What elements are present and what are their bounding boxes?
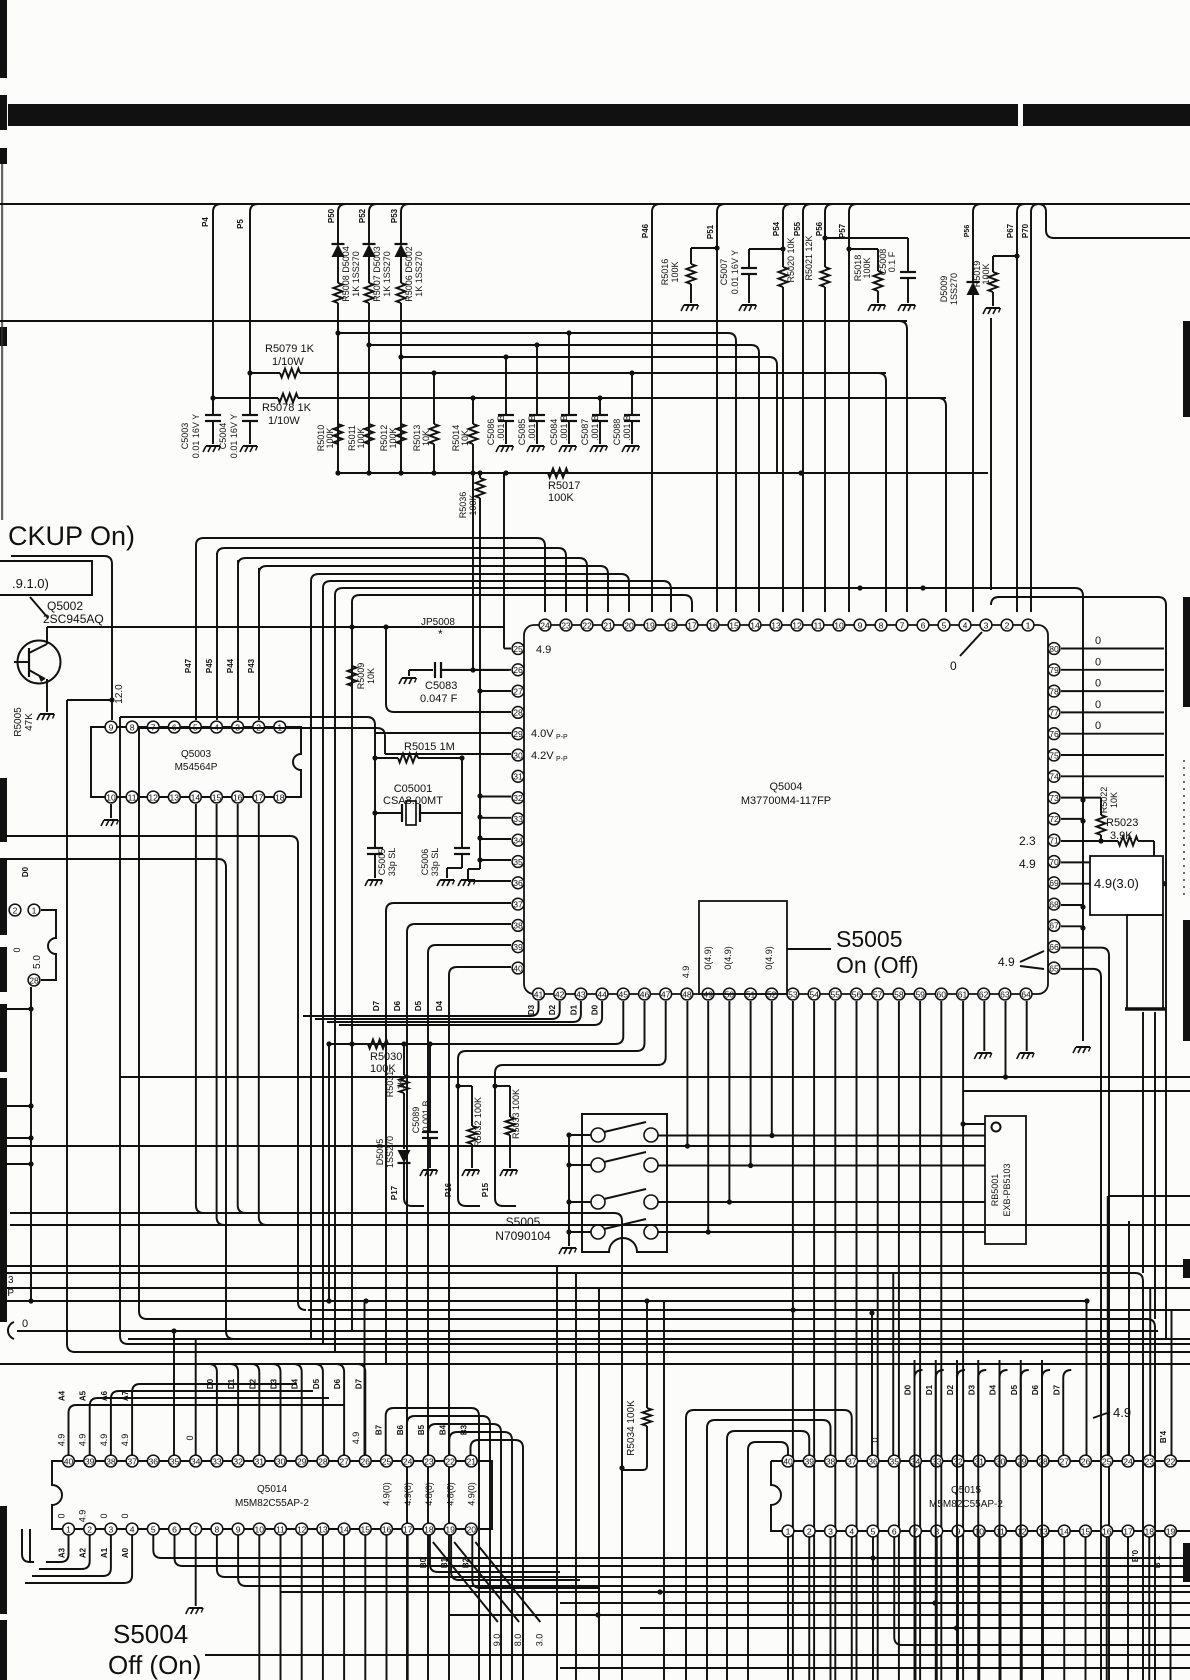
wire column P52	[369, 204, 377, 243]
junction dot R5031 top	[401, 1041, 406, 1046]
wire v67 down to bottom bus	[67, 700, 75, 1352]
svg-text:R5022: R5022	[1099, 787, 1109, 814]
bottom left bus curves	[22, 1529, 34, 1562]
svg-text:31: 31	[513, 772, 523, 782]
svg-text:2: 2	[13, 905, 18, 915]
svg-text:37: 37	[127, 1456, 137, 1466]
capacitor C5003	[213, 204, 221, 415]
svg-text:R5006 D5002: R5006 D5002	[404, 246, 414, 302]
svg-text:Q5015: Q5015	[951, 1485, 981, 1496]
junction dot R5006 bus	[398, 470, 403, 475]
IC Q5004 top pins	[539, 619, 551, 631]
capacitor C5083 0.047F	[409, 669, 433, 671]
svg-text:47: 47	[661, 989, 671, 999]
capacitor C5085 .001 B	[536, 345, 538, 415]
svg-text:Q5003: Q5003	[181, 749, 211, 760]
box right lower	[1127, 915, 1163, 1009]
label S5005 On (Off)	[787, 948, 831, 950]
resistor R5032 100K	[458, 1085, 472, 1087]
svg-text:27: 27	[513, 686, 523, 696]
IC Q5004 M37700M4-117FP body	[524, 625, 1048, 994]
svg-text:0: 0	[12, 947, 22, 952]
wires MCU pins 49-52 drops	[707, 1001, 709, 1232]
svg-text:M37700M4-117FP: M37700M4-117FP	[741, 795, 831, 807]
svg-text:33p SL: 33p SL	[430, 848, 440, 877]
transistor Q5002	[18, 641, 61, 684]
wire pin33 stub	[480, 817, 511, 819]
wire column P53	[401, 204, 409, 243]
svg-text:R5016: R5016	[660, 259, 670, 286]
wires D0-D7 Q5015 pins 34-27	[914, 1360, 916, 1680]
IC Q5003 M54564P body	[91, 727, 301, 797]
capacitor C5088 .001 B	[631, 373, 633, 415]
svg-text:12: 12	[1017, 1526, 1027, 1536]
ground C5008	[901, 304, 915, 306]
wire pin74 stub	[1061, 775, 1164, 777]
svg-text:15: 15	[1081, 1526, 1091, 1536]
svg-text:33: 33	[212, 1456, 222, 1466]
svg-text:23: 23	[1144, 1456, 1154, 1466]
svg-text:D0: D0	[21, 866, 30, 877]
IC Q5015 bottom pins	[782, 1525, 794, 1537]
svg-text:5: 5	[151, 1524, 156, 1534]
svg-text:D6: D6	[1031, 1384, 1040, 1395]
svg-text:12: 12	[792, 620, 802, 630]
ground R5036	[461, 879, 475, 881]
svg-text:8: 8	[215, 1524, 220, 1534]
svg-text:45: 45	[619, 989, 629, 999]
svg-text:100K: 100K	[862, 257, 872, 278]
wires S5005 to MCU pins	[658, 1135, 772, 1137]
svg-text:D2: D2	[248, 1378, 257, 1389]
svg-text:4.2V: 4.2V	[531, 750, 554, 762]
junction dot pin61 RB5001	[961, 1121, 966, 1126]
svg-text:D3: D3	[527, 1004, 536, 1015]
wire pin7 drop	[899, 321, 907, 612]
svg-text:B'4: B'4	[1159, 1430, 1168, 1443]
svg-text:D6: D6	[393, 1000, 402, 1011]
ground net gnd	[1076, 1046, 1090, 1048]
svg-text:60: 60	[937, 989, 947, 999]
svg-text:D4: D4	[435, 1000, 444, 1011]
svg-text:5: 5	[871, 1526, 876, 1536]
wire v139	[139, 728, 147, 1319]
resistor R5010 100K	[334, 424, 343, 444]
wire P47 to Q5003 pin5	[195, 545, 197, 720]
svg-text:0.01 16V Y: 0.01 16V Y	[229, 414, 239, 458]
svg-text:17: 17	[254, 792, 264, 802]
fan wire F2 y=548	[217, 548, 225, 555]
svg-text:56: 56	[852, 989, 862, 999]
svg-text:74: 74	[1049, 772, 1059, 782]
junction dot collector/v352	[349, 624, 354, 629]
svg-text:46: 46	[640, 989, 650, 999]
junction dot P57 R5018	[846, 246, 851, 251]
svg-text:EXB-PB5103: EXB-PB5103	[1002, 1163, 1012, 1216]
svg-text:P5: P5	[236, 219, 245, 229]
svg-text:D2: D2	[548, 1004, 557, 1015]
junction dot C5089 top	[427, 1041, 432, 1046]
ground C5088	[625, 445, 639, 447]
svg-text:25: 25	[513, 644, 523, 654]
svg-text:4: 4	[130, 1524, 135, 1534]
IC Q5004 left pins	[512, 643, 524, 655]
wire pin9 Q5014	[238, 1535, 1190, 1586]
svg-text:0.01 16V Y: 0.01 16V Y	[191, 414, 201, 458]
svg-text:27: 27	[339, 1456, 349, 1466]
svg-text:17: 17	[403, 1524, 413, 1534]
svg-text:21: 21	[467, 1456, 477, 1466]
ground C5003	[206, 445, 220, 447]
wire column P46 to pin19	[652, 204, 660, 612]
svg-text:30: 30	[276, 1456, 286, 1466]
svg-text:C5088: C5088	[612, 419, 622, 446]
junction dot R5007 bus	[366, 470, 371, 475]
svg-text:.9.1.0): .9.1.0)	[12, 576, 49, 591]
svg-text:4: 4	[963, 620, 968, 630]
svg-text:B5: B5	[417, 1424, 426, 1435]
ground Q5002 emitter	[40, 713, 54, 715]
svg-text:A4: A4	[58, 1390, 67, 1401]
junction dot R5032 top	[455, 1083, 460, 1088]
IC Q5004 right pins	[1048, 643, 1060, 655]
wire pin35 stub	[480, 859, 511, 861]
svg-text:D4: D4	[291, 1378, 300, 1389]
svg-text:P46: P46	[641, 223, 650, 238]
svg-text:55: 55	[831, 989, 841, 999]
capacitor C5087 .001 B	[599, 398, 601, 415]
svg-text:A0: A0	[121, 1547, 130, 1558]
svg-text:35: 35	[513, 857, 523, 867]
wire column P70 to pin1	[1031, 204, 1039, 612]
wire pin25 to bus C	[504, 648, 511, 650]
svg-text:76: 76	[1049, 729, 1059, 739]
svg-text:10K: 10K	[421, 430, 431, 446]
svg-text:0: 0	[1095, 678, 1101, 690]
svg-text:44: 44	[597, 989, 607, 999]
junction dot R5008 bus	[335, 470, 340, 475]
ground Q5003 pin10	[110, 804, 112, 818]
resistor R5013 10K	[430, 424, 439, 444]
svg-text:15: 15	[729, 620, 739, 630]
ground C5006	[440, 879, 454, 881]
svg-text:R5007 D5003: R5007 D5003	[372, 246, 382, 302]
svg-text:4.9: 4.9	[351, 1432, 361, 1445]
svg-text:33p SL: 33p SL	[387, 848, 397, 877]
junction dot pin36 Q5015	[869, 1310, 874, 1315]
svg-text:R5033 100K: R5033 100K	[511, 1089, 521, 1139]
svg-text:80: 80	[1049, 644, 1059, 654]
svg-text:24: 24	[403, 1456, 413, 1466]
resistor R5016 100K	[691, 247, 717, 249]
svg-text:B4: B4	[438, 1424, 447, 1435]
junction dot P52 fan	[366, 342, 371, 347]
junction dots R5036 pins 32-35	[477, 793, 482, 798]
svg-text:16: 16	[382, 1524, 392, 1534]
wire pin40 to D4 column	[457, 966, 511, 968]
svg-text:35: 35	[889, 1456, 899, 1466]
svg-text:19: 19	[1166, 1526, 1176, 1536]
svg-text:C5083: C5083	[425, 680, 457, 692]
junction dot bus C pin12 column	[798, 470, 803, 475]
svg-text:D5009: D5009	[939, 276, 949, 303]
svg-text:0.01 16V Y: 0.01 16V Y	[730, 250, 740, 294]
wires Q5015 bottom pins drops	[787, 1537, 789, 1680]
svg-text:R5017: R5017	[548, 480, 580, 492]
svg-text:11: 11	[276, 1524, 285, 1534]
ground C5007	[742, 304, 756, 306]
junction dot bus1310 pin53 column	[791, 1307, 796, 1312]
resistor R5017 100K on bus C	[548, 469, 568, 478]
svg-text:1K: 1K	[396, 1078, 406, 1089]
svg-text:1: 1	[66, 1524, 71, 1534]
svg-text:14: 14	[750, 620, 760, 630]
svg-text:57: 57	[873, 989, 883, 999]
svg-text:5: 5	[942, 620, 947, 630]
wires D0-D7 Q5015 pins 34-27 redo	[915, 1370, 923, 1455]
svg-text:21: 21	[603, 620, 613, 630]
svg-text:16: 16	[1102, 1526, 1112, 1536]
junction dot C5003/R5078 wire	[210, 395, 215, 400]
wire pin66	[1061, 947, 1101, 949]
junction dot R5014	[470, 395, 475, 400]
svg-text:R5023: R5023	[1106, 817, 1138, 829]
svg-text:1K 1SS270: 1K 1SS270	[414, 251, 424, 297]
svg-text:A2: A2	[79, 1547, 88, 1558]
svg-text:4.9(0): 4.9(0)	[403, 1482, 413, 1506]
svg-text:34: 34	[513, 836, 523, 846]
svg-text:2: 2	[807, 1526, 812, 1536]
svg-text:C05001: C05001	[394, 783, 433, 795]
bus y=1330	[8, 1322, 14, 1339]
svg-text:39: 39	[513, 942, 523, 952]
svg-text:A1: A1	[100, 1547, 109, 1558]
svg-text:P52: P52	[358, 208, 367, 223]
bottom partial bus	[560, 1667, 1190, 1669]
svg-text:14: 14	[339, 1524, 349, 1534]
wire column P55 to pin12	[803, 204, 811, 612]
svg-text:9: 9	[109, 722, 114, 732]
wires pins 53-60 vertical drops	[792, 1001, 794, 1680]
capacitor C5004	[250, 204, 258, 415]
svg-text:38: 38	[106, 1456, 116, 1466]
diode D5003 1SS270	[363, 244, 376, 257]
ground pin64	[1020, 1052, 1034, 1054]
wire pin29 net	[375, 732, 511, 734]
svg-text:11: 11	[996, 1526, 1005, 1536]
wire Q5003 pin17 drop	[259, 804, 267, 1225]
svg-text:1/10W: 1/10W	[272, 356, 304, 368]
wire P50 column lower	[337, 303, 339, 473]
junction dot crystal left	[372, 810, 377, 815]
ground R5033	[503, 1169, 517, 1171]
svg-text:On (Off): On (Off)	[836, 952, 919, 978]
svg-text:13: 13	[771, 620, 781, 630]
wire pin64 ground	[1026, 1001, 1028, 1051]
svg-text:0: 0	[1095, 635, 1101, 647]
junction dot P53 fan	[398, 354, 403, 359]
svg-text:P50: P50	[327, 208, 336, 223]
wire pin73 R5022	[1061, 797, 1101, 799]
svg-text:9.0: 9.0	[492, 1634, 502, 1647]
svg-text:B7: B7	[375, 1424, 384, 1435]
svg-text:2.3: 2.3	[1019, 834, 1036, 848]
svg-text:4.9(3.0): 4.9(3.0)	[1094, 876, 1139, 891]
svg-text:10K: 10K	[1109, 792, 1119, 808]
wires B0-B2 curves	[430, 1535, 560, 1572]
wire P43 to Q5003 pin2	[258, 568, 260, 720]
wire P17 column R5031 D5005	[403, 1044, 405, 1075]
svg-text:28: 28	[1038, 1456, 1048, 1466]
ground C5083	[408, 670, 410, 676]
ground C5087	[593, 445, 607, 447]
svg-text:4.9(0): 4.9(0)	[382, 1482, 392, 1506]
junction dot C5084	[566, 330, 571, 335]
svg-text:40: 40	[783, 1456, 793, 1466]
svg-text:100K: 100K	[356, 427, 366, 448]
wire pin67 stub	[1061, 925, 1083, 927]
svg-text:D5: D5	[312, 1378, 321, 1389]
wire v462 crystal right	[461, 758, 463, 848]
wire pin30 net	[385, 753, 511, 755]
junction dot pin48	[685, 1143, 690, 1148]
svg-text:M54564P: M54564P	[175, 762, 218, 773]
wire stub to v67	[67, 699, 112, 701]
resistor R5023 3.9K	[1118, 837, 1138, 846]
bus y=1288	[0, 1287, 1190, 1289]
svg-text:34: 34	[911, 1456, 921, 1466]
ground R5019	[986, 307, 1000, 309]
stubs left edge v31	[0, 1008, 31, 1010]
svg-text:16: 16	[708, 620, 718, 630]
svg-text:R5021 12K: R5021 12K	[804, 235, 814, 280]
svg-text:13: 13	[318, 1524, 328, 1534]
svg-text:3: 3	[984, 620, 989, 630]
wire R5014 column	[472, 398, 474, 424]
page header black bar	[8, 104, 1190, 126]
junction dot F7 pin9	[857, 585, 862, 590]
svg-text:20: 20	[624, 620, 634, 630]
svg-text:R5034 100K: R5034 100K	[626, 1400, 637, 1456]
svg-text:33: 33	[513, 814, 523, 824]
svg-text:P45: P45	[205, 658, 214, 673]
svg-text:4.8(0): 4.8(0)	[445, 1482, 455, 1506]
wire box to transistor	[30, 597, 48, 618]
wire column P67 to pin2	[1017, 204, 1025, 612]
svg-text:P47: P47	[184, 658, 193, 673]
svg-text:4.9: 4.9	[78, 1510, 88, 1523]
svg-text:Off (On): Off (On)	[108, 1650, 201, 1680]
svg-text:68: 68	[1049, 899, 1059, 909]
resistor R5014 10K	[469, 424, 478, 444]
svg-text:R5005: R5005	[13, 707, 24, 737]
svg-text:M5M82C55AP-2: M5M82C55AP-2	[929, 1499, 1003, 1510]
wire pin3 net y=597	[991, 597, 999, 605]
svg-text:3: 3	[8, 1275, 14, 1286]
wire pin36 stub	[468, 880, 511, 882]
wire collector bus y=627	[47, 626, 504, 628]
wire v1143 upper	[1142, 1012, 1144, 1273]
junction dot F7 pin6	[920, 585, 925, 590]
svg-text:4.9: 4.9	[536, 644, 551, 656]
svg-text:1SS270: 1SS270	[385, 1136, 395, 1168]
wires pins 41-44 to bus	[303, 1001, 539, 1016]
svg-text:D2: D2	[946, 1384, 955, 1395]
wire v599	[598, 1288, 600, 1680]
diode D5002 1SS270	[395, 244, 408, 257]
ground S5005	[562, 1247, 576, 1249]
junction dot C5085	[534, 342, 539, 347]
svg-text:29: 29	[297, 1456, 307, 1466]
wire pin70 stub	[1061, 861, 1154, 863]
svg-text:3.9K: 3.9K	[1110, 830, 1133, 842]
diagonal wires pins 18-20	[433, 1542, 498, 1622]
IC Q5014 top pins	[63, 1455, 75, 1467]
bus B horizontal y=321	[0, 320, 907, 322]
wire pin72 stub	[1061, 818, 1083, 820]
svg-text:16: 16	[233, 792, 243, 802]
wire pin71 R5023 net	[1061, 840, 1118, 842]
fan wire F6 y=581	[323, 581, 331, 1344]
resistor R5015 1M	[375, 757, 398, 759]
wire pin47 to P15	[503, 1001, 666, 1065]
IC Q5014 M5M82C55AP-2 body	[52, 1461, 492, 1529]
svg-text:0: 0	[950, 659, 957, 673]
svg-text:0: 0	[57, 1513, 67, 1518]
svg-text:1SS270: 1SS270	[949, 273, 959, 305]
wires A3-A0 curves	[46, 1535, 69, 1562]
svg-text:10: 10	[106, 792, 116, 802]
svg-text:P43: P43	[247, 658, 256, 673]
svg-text:R5020 10K: R5020 10K	[786, 237, 796, 282]
wires pins 80-75 stubs with 0 labels	[1061, 648, 1164, 650]
resistor R5007 1K	[365, 283, 374, 303]
diode D5005 1SS270	[398, 1150, 411, 1163]
svg-text:.001 B: .001 B	[496, 415, 506, 441]
ground R5032	[465, 1169, 479, 1171]
inner box S5005 pins 48-52	[699, 901, 787, 994]
wire R5034 column	[646, 1301, 648, 1408]
junction dot C5004/R5079 wire	[247, 370, 252, 375]
svg-text:30: 30	[513, 750, 523, 760]
IC Q5004 bottom pins	[533, 988, 545, 1000]
svg-text:D5005: D5005	[375, 1139, 385, 1166]
capacitor C5089 0.001 B	[429, 1044, 431, 1132]
wire Q5003 pin14 drop	[196, 804, 204, 1213]
svg-text:B'0: B'0	[1131, 1549, 1140, 1562]
svg-text:26: 26	[361, 1456, 371, 1466]
svg-text:*: *	[438, 627, 443, 641]
svg-text:Q5014: Q5014	[257, 1484, 287, 1495]
svg-text:D7: D7	[1052, 1384, 1061, 1395]
svg-text:31: 31	[255, 1456, 265, 1466]
junction dot collector/v386	[383, 624, 388, 629]
wire y=357 drop	[401, 356, 769, 358]
svg-text:67: 67	[1049, 921, 1059, 931]
wire v557	[556, 1266, 558, 1680]
svg-text:N7090104: N7090104	[495, 1229, 551, 1243]
svg-text:D1: D1	[227, 1378, 236, 1389]
wires A4-A7 to bus	[69, 1405, 346, 1455]
svg-text:32: 32	[513, 793, 523, 803]
svg-text:62: 62	[979, 989, 989, 999]
svg-text:C5084: C5084	[549, 419, 559, 446]
junction dot R5030 bus left	[326, 1041, 331, 1046]
bus y=1364	[0, 1363, 1190, 1365]
svg-text:4.9: 4.9	[1019, 857, 1036, 871]
bus y=1344	[128, 1343, 1190, 1345]
svg-text:10: 10	[974, 1526, 984, 1536]
